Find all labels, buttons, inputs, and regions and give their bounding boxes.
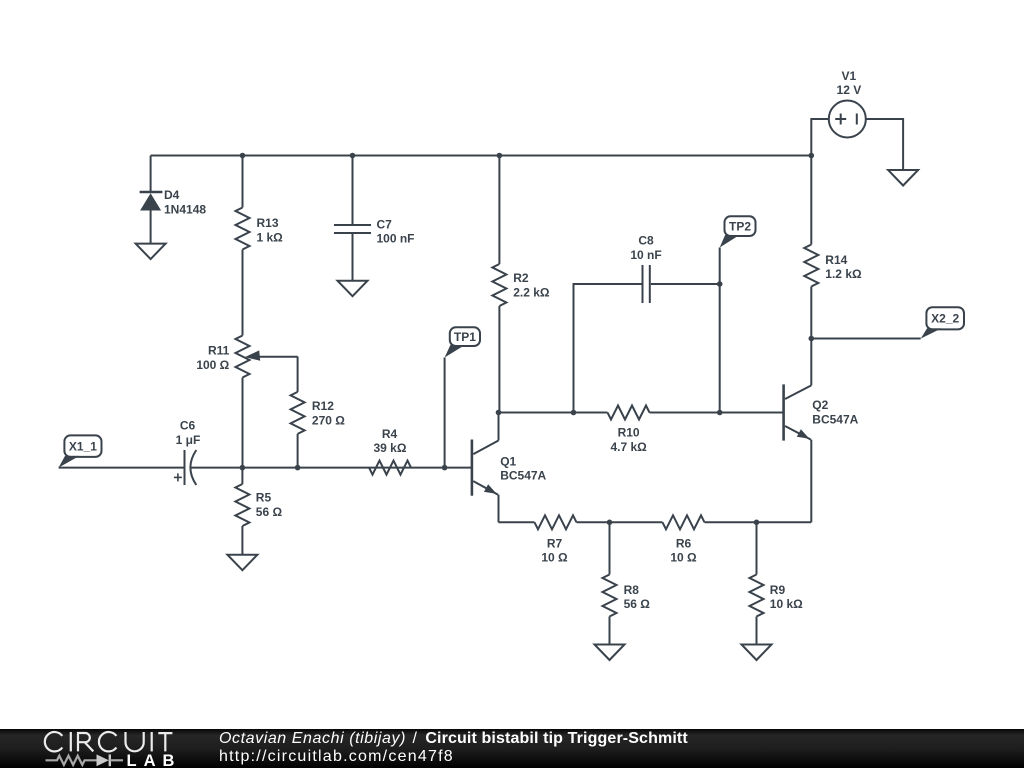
ground: [888, 170, 918, 186]
wire TP1: [444, 358, 446, 468]
wire C7 bottom: [352, 233, 354, 281]
svg-text:X1_1: X1_1: [69, 439, 97, 453]
wire V1 left lead: [811, 119, 829, 156]
svg-text:R9: R9: [770, 583, 786, 597]
svg-text:56 Ω: 56 Ω: [624, 597, 651, 611]
svg-text:C8: C8: [638, 234, 654, 248]
svg-text:C7: C7: [377, 217, 393, 231]
wire V1 right lead: [866, 119, 903, 170]
wire R11 to node: [242, 378, 244, 468]
wire junction: [295, 465, 301, 471]
svg-text:10 Ω: 10 Ω: [670, 551, 697, 565]
ground: [742, 645, 772, 661]
wire junction: [350, 153, 356, 159]
wire R13 to R11: [242, 250, 244, 336]
wire input: [59, 467, 184, 469]
resistor R13: [236, 208, 284, 250]
ground: [338, 281, 368, 297]
wire R5 bottom: [241, 526, 243, 555]
svg-text:10 Ω: 10 Ω: [541, 551, 568, 565]
potentiometer R11: [196, 336, 297, 378]
wire junction: [496, 410, 502, 416]
wire R2 top: [498, 156, 500, 265]
wire junction: [809, 153, 815, 159]
svg-text:R8: R8: [624, 583, 640, 597]
svg-text:C6: C6: [180, 419, 196, 433]
svg-text:2.2 kΩ: 2.2 kΩ: [513, 285, 550, 299]
wire R7 to R6: [577, 521, 663, 523]
capacitor C6: [174, 419, 200, 486]
wire C8 left: [574, 284, 642, 413]
svg-text:1.2 kΩ: 1.2 kΩ: [825, 267, 862, 281]
wire R13 top: [242, 156, 244, 208]
svg-text:V1: V1: [842, 69, 857, 83]
wire D4 branch: [150, 156, 152, 193]
resistor R9: [750, 575, 804, 617]
svg-text:R5: R5: [256, 491, 272, 505]
wire top rail: [151, 155, 812, 157]
resistor R14: [804, 245, 862, 287]
resistor R12: [291, 392, 346, 434]
svg-text:R6: R6: [676, 536, 692, 550]
wire junction: [717, 410, 723, 416]
ground: [595, 645, 625, 661]
wire junction: [240, 465, 246, 471]
flag X1_1: [59, 435, 102, 467]
wire R14 top: [810, 156, 812, 245]
wire junction: [809, 336, 815, 342]
wire collector node: [499, 412, 608, 414]
wire Q1 emitter run: [499, 521, 535, 523]
svg-text:1N4148: 1N4148: [164, 203, 206, 217]
wire R11 wiper to R12: [297, 357, 299, 392]
flag X2_2: [921, 307, 964, 338]
svg-text:1 kΩ: 1 kΩ: [257, 230, 284, 244]
svg-text:R12: R12: [312, 399, 334, 413]
wire to X2_2: [811, 338, 920, 340]
svg-text:270 Ω: 270 Ω: [312, 414, 345, 428]
svg-text:12 V: 12 V: [837, 83, 862, 97]
svg-text:100 Ω: 100 Ω: [196, 358, 229, 372]
wire junction: [717, 281, 723, 287]
wire R8 top: [609, 522, 611, 574]
wire junction: [240, 153, 246, 159]
svg-text:R7: R7: [547, 536, 563, 550]
svg-text:X2_2: X2_2: [931, 312, 959, 326]
capacitor C8: [630, 234, 661, 304]
resistor R7: [535, 515, 577, 564]
wire C6 to Q1 base: [191, 467, 472, 469]
svg-text:R4: R4: [382, 427, 398, 441]
svg-text:Q2: Q2: [812, 398, 828, 412]
voltage source V1: [829, 69, 866, 137]
wire junction: [607, 520, 613, 526]
wire junction: [442, 465, 448, 471]
wire junction: [571, 410, 577, 416]
resistor R4: [369, 427, 411, 475]
CircuitLab logo word CIRCUIT: [45, 732, 173, 751]
wire R10 to Q2 base: [650, 412, 784, 414]
svg-text:10 kΩ: 10 kΩ: [770, 597, 803, 611]
svg-text:R14: R14: [825, 253, 847, 267]
flag TP2: [720, 216, 756, 247]
transistor Q1: [472, 413, 547, 523]
svg-text:R11: R11: [208, 344, 230, 358]
wire R12 bottom: [297, 434, 299, 468]
resistor R10: [608, 406, 650, 454]
svg-text:R2: R2: [513, 271, 529, 285]
svg-text:R13: R13: [257, 216, 279, 230]
svg-text:D4: D4: [164, 188, 180, 202]
flag TP1: [445, 327, 480, 357]
svg-text:56 Ω: 56 Ω: [256, 505, 283, 519]
CircuitLab logo resistor-diode glyph: [46, 754, 124, 766]
wire R6 to Q2 emitter: [705, 521, 812, 523]
transistor Q2: [784, 339, 859, 523]
wire R9 bottom: [756, 617, 758, 645]
wire R2 bottom: [498, 306, 500, 413]
svg-text:BC547A: BC547A: [812, 412, 858, 426]
svg-text:R10: R10: [618, 426, 640, 440]
wire C7 top: [352, 156, 354, 226]
resistor R8: [603, 575, 651, 617]
capacitor C7: [334, 217, 415, 245]
wire R5 top: [241, 468, 243, 484]
svg-text:BC547A: BC547A: [500, 469, 546, 483]
svg-text:1 μF: 1 μF: [176, 433, 201, 447]
resistor R6: [663, 515, 705, 564]
svg-text:Q1: Q1: [500, 454, 516, 468]
wire R9 top: [756, 522, 758, 574]
wire TP2: [719, 248, 721, 413]
svg-text:4.7 kΩ: 4.7 kΩ: [610, 440, 647, 454]
wire junction: [497, 153, 503, 159]
svg-text:LAB: LAB: [127, 752, 182, 768]
svg-text:10 nF: 10 nF: [630, 248, 661, 262]
svg-text:39 kΩ: 39 kΩ: [374, 441, 407, 455]
resistor R5: [235, 484, 282, 526]
wire R14 bottom: [810, 287, 812, 339]
ground: [136, 244, 166, 260]
svg-text:TP1: TP1: [454, 330, 476, 344]
wire C8 right: [651, 283, 720, 285]
svg-text:TP2: TP2: [729, 219, 751, 233]
resistor R2: [492, 264, 549, 306]
wire junction: [754, 520, 760, 526]
wire R8 bottom: [609, 617, 611, 645]
diode D4: [140, 188, 207, 243]
svg-text:100 nF: 100 nF: [377, 232, 415, 246]
ground: [227, 555, 257, 571]
